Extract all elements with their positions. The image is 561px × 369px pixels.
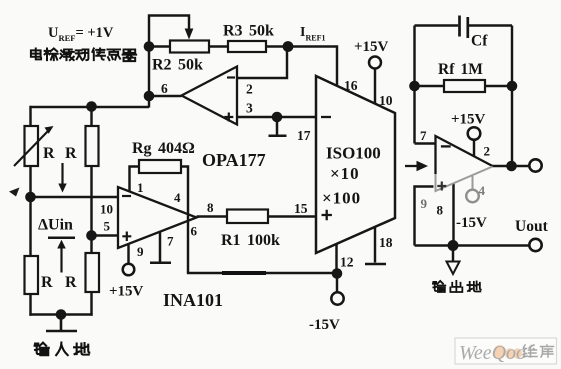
- svg-text:9: 9: [137, 244, 144, 259]
- wire: feedback right vertical: [511, 26, 513, 167]
- wire: OPA177 pin 2 inverting input: [237, 47, 287, 79]
- node IREF1 junction: [283, 41, 294, 52]
- watermark Qoo highlight: [494, 345, 506, 359]
- svg-text:Uout: Uout: [515, 218, 549, 235]
- node: Rf left junction: [409, 81, 420, 92]
- ground at OPA177 pin 3: [269, 117, 287, 136]
- iso-amp U3 ISO100: [316, 76, 395, 253]
- wire: bridge top rail: [31, 106, 150, 108]
- terminal: Uout: [529, 239, 541, 251]
- svg-text:Rf 1M: Rf 1M: [438, 61, 483, 78]
- svg-text:9: 9: [421, 196, 428, 211]
- wire: INA101 pin 8 output to R1: [197, 215, 228, 217]
- U3 plus sign: [322, 210, 332, 220]
- label 输出地 (output ground): [433, 281, 481, 292]
- svg-text:4: 4: [174, 190, 181, 205]
- wire: OPA177 output node vertical: [148, 44, 150, 108]
- wire: R2 left terminal: [149, 45, 170, 47]
- terminal: -15V at ISO100 pin 12: [331, 292, 343, 304]
- resistor Rf 1M: [444, 80, 485, 92]
- svg-text:+15V: +15V: [109, 284, 144, 300]
- svg-text:3: 3: [246, 101, 253, 116]
- wire: R1 to ISO100 pin 15: [268, 215, 316, 217]
- node: bridge right mid junction: [86, 230, 97, 241]
- node: bridge left mid junction: [25, 192, 36, 203]
- svg-text:16: 16: [344, 78, 358, 93]
- U3 minus sign: [321, 116, 331, 118]
- wire: Rf left: [415, 85, 445, 87]
- svg-text:5: 5: [104, 219, 111, 234]
- terminal: +15V at ISO100 pin 10: [369, 57, 381, 69]
- svg-text:R3 50k: R3 50k: [223, 23, 274, 40]
- svg-text:R1 100k: R1 100k: [221, 232, 280, 249]
- svg-text:2: 2: [246, 82, 253, 97]
- wire: feedback left vertical to pin 7: [415, 26, 437, 144]
- wire: output ground stub: [452, 246, 454, 262]
- wire: R2 to R3: [209, 45, 228, 47]
- svg-text:10: 10: [100, 202, 113, 217]
- svg-text:1: 1: [137, 180, 144, 195]
- wire: bridge bottom: [29, 313, 92, 315]
- scan artifact blob left margin: [9, 188, 20, 197]
- watermark 维库: [523, 345, 554, 357]
- svg-text:R: R: [65, 274, 77, 291]
- potentiometer R2 50k body: [170, 41, 209, 53]
- resistor R (bridge lower-left): [25, 256, 39, 294]
- terminal: -15V at U4 pin 4 (faded): [472, 176, 474, 190]
- node: ground rail junction: [448, 240, 459, 251]
- wire: node IREF1 to ISO100 pin 16: [288, 47, 337, 86]
- op-amp U4 output (black part): [436, 136, 493, 174]
- wire: bridge left branch: [29, 106, 31, 316]
- signal flow arrow: [405, 165, 417, 167]
- wire: ISO100 pin 18 ground stub: [374, 227, 376, 263]
- scan artifact dark segment on rail: [222, 271, 266, 275]
- arrow into bridge mid rail: [61, 163, 63, 184]
- ground at INA101 pin 7: [150, 232, 171, 263]
- U4 minus sign: [441, 145, 451, 147]
- node: U4 output junction: [506, 161, 517, 172]
- capacitor Cf: [460, 16, 468, 39]
- terminal: +15V at U4: [468, 127, 481, 140]
- svg-text:R2 50k: R2 50k: [152, 57, 203, 74]
- svg-text:18: 18: [379, 235, 393, 250]
- watermark box: [455, 338, 557, 364]
- node: pin3 junction: [272, 112, 283, 123]
- svg-text:4: 4: [479, 183, 486, 198]
- svg-text:2: 2: [484, 144, 491, 159]
- svg-text:7: 7: [420, 128, 427, 143]
- svg-text:-15V: -15V: [309, 317, 340, 333]
- U2 minus sign: [122, 195, 131, 197]
- wire: INA101 pin 6 rail to ISO100 pin 12: [187, 272, 337, 274]
- terminal: +15V at INA101 pin 9: [123, 264, 135, 276]
- svg-text:7: 7: [167, 234, 174, 249]
- node: Rf right junction: [507, 81, 518, 92]
- svg-text:INA101: INA101: [163, 290, 223, 310]
- resistor R3 50k: [228, 41, 266, 52]
- ground: output ground arrow: [447, 262, 460, 275]
- svg-text:6: 6: [161, 81, 168, 96]
- ground: input ground: [46, 315, 77, 332]
- resistor Rg 404 ohm: [139, 160, 181, 173]
- wire: Rf right: [485, 85, 512, 87]
- wire: Cf top right: [469, 24, 512, 26]
- node: bridge bottom junction: [56, 309, 67, 320]
- wire: OPA177 output to apex: [149, 95, 182, 97]
- wire: U4 +15V stub: [473, 140, 475, 157]
- svg-text:ΔUin: ΔUin: [38, 217, 73, 234]
- U1 minus sign: [227, 76, 235, 78]
- wire: Rg right stub pin 4 / pin 6 drop: [181, 167, 188, 274]
- svg-text:8: 8: [437, 203, 444, 218]
- svg-text:UREF= +1V: UREF= +1V: [48, 25, 114, 43]
- terminal: output: [529, 159, 541, 171]
- svg-text:-15V: -15V: [456, 215, 487, 231]
- svg-text:×10: ×10: [330, 164, 360, 183]
- svg-text:10: 10: [379, 93, 393, 108]
- svg-text:15: 15: [294, 201, 308, 216]
- svg-text:+15V: +15V: [354, 39, 389, 55]
- svg-text:R: R: [65, 145, 77, 162]
- svg-text:×100: ×100: [322, 189, 361, 208]
- wire: U4 output: [493, 165, 530, 167]
- node: OPA177 output junction: [144, 91, 155, 102]
- ground at ISO100 pin 18: [365, 263, 386, 266]
- delta Uin annotation arrow: [60, 248, 62, 273]
- wire: OPA177 pin 3 to ISO100 pin 17: [237, 116, 316, 118]
- wire: R3 to node IREF1: [266, 45, 288, 47]
- wire: bridge right mid node to INA101 pin 5: [92, 234, 119, 236]
- svg-text:ISO100: ISO100: [326, 144, 381, 163]
- svg-text:R: R: [41, 274, 53, 291]
- resistor R1 100k: [227, 210, 268, 224]
- wire: ISO100 pin 10 supply stub: [374, 69, 376, 104]
- svg-text:OPA177: OPA177: [202, 150, 266, 170]
- label 输入地 (input ground): [35, 343, 90, 356]
- op-amp U1 OPA177 (points left): [182, 67, 238, 125]
- svg-text:WeeQoo: WeeQoo: [459, 342, 526, 364]
- wire: Rg left stub pin 1: [130, 167, 140, 192]
- svg-text:Rg 404Ω: Rg 404Ω: [132, 140, 195, 157]
- node: pin 12 junction: [332, 268, 343, 279]
- resistor R (bridge upper-right): [86, 126, 99, 166]
- wire: U4 + input from ground rail: [415, 187, 434, 246]
- wire: Cf top left: [415, 24, 459, 26]
- op-amp U4 output (faded part): [436, 167, 493, 192]
- wire: output ground rail: [415, 244, 530, 246]
- wire: bridge right branch: [90, 105, 92, 315]
- svg-text:Cf: Cf: [471, 33, 488, 50]
- node: R2 left terminal junction: [144, 41, 155, 52]
- wire: U4 pin 8 drop: [452, 184, 454, 246]
- wire: ISO100 pin 12 supply stub: [335, 244, 338, 292]
- resistor R (bridge lower-right): [86, 253, 100, 292]
- svg-text:R: R: [43, 145, 55, 162]
- svg-text:+15V: +15V: [451, 112, 486, 128]
- potentiometer R2 wiper arrow: [188, 29, 190, 31]
- variable resistor R (bridge upper-left): [25, 126, 39, 166]
- wire: R2 wiper loop: [149, 16, 189, 45]
- svg-text:12: 12: [340, 255, 354, 270]
- svg-text:17: 17: [297, 128, 311, 143]
- U2 plus sign: [122, 232, 131, 242]
- U1 plus sign: [224, 113, 233, 122]
- U4 plus sign: [437, 182, 446, 191]
- in-amp U2 INA101: [118, 187, 197, 248]
- wire: INA101 pin 9 supply stub: [127, 244, 129, 264]
- wire: bridge left mid node to INA101 pin 10: [30, 196, 118, 198]
- label 电桥激励传感器 (bridge excitation sensor): [31, 48, 136, 61]
- svg-text:6: 6: [191, 224, 198, 239]
- node: bridge top junction: [86, 101, 97, 112]
- delta Uin annotation bar: [48, 236, 75, 239]
- svg-text:8: 8: [207, 200, 214, 215]
